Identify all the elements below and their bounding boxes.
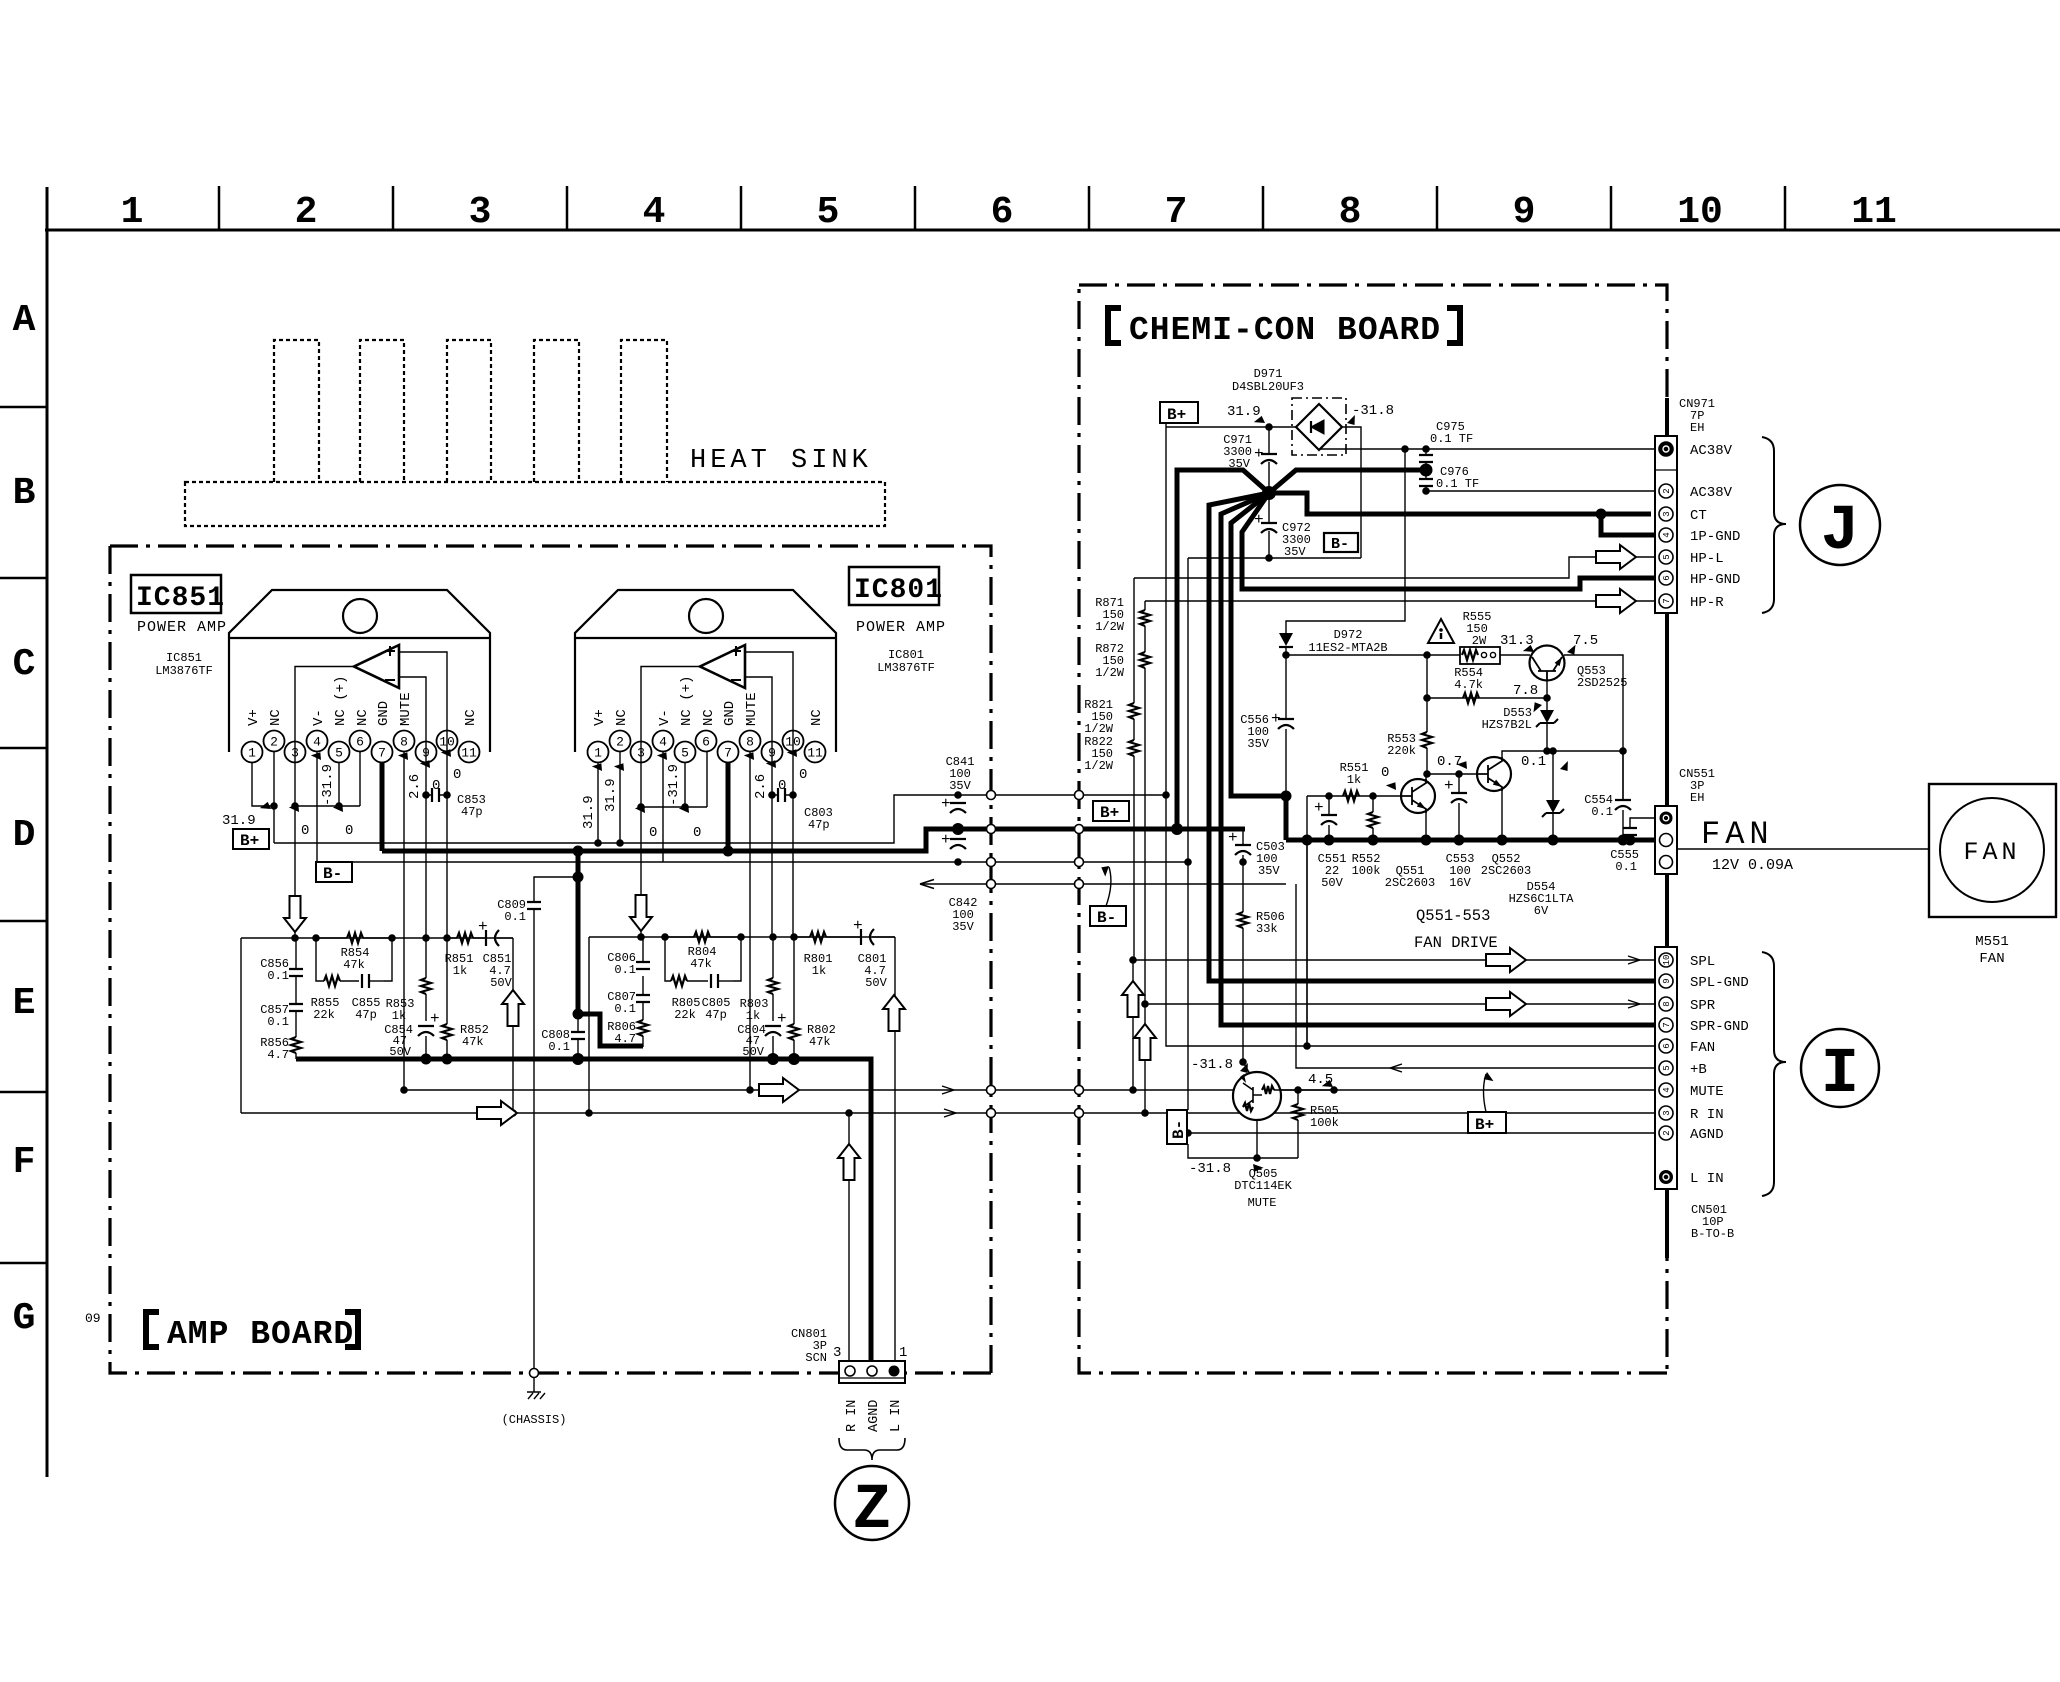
- transistor Q551: [1401, 779, 1435, 813]
- node 31.9 IC801 pin1: [592, 760, 606, 773]
- svg-text:1: 1: [899, 1345, 907, 1361]
- svg-text:MUTE: MUTE: [398, 692, 414, 726]
- IC801 pin name labels: [592, 676, 825, 726]
- IC851 reference label box: [131, 575, 221, 613]
- capacitor C842: [950, 839, 966, 849]
- svg-text:4.7: 4.7: [614, 1032, 636, 1046]
- svg-text:9: 9: [1513, 191, 1536, 234]
- svg-text:(CHASSIS): (CHASSIS): [502, 1413, 567, 1427]
- svg-text:FAN: FAN: [1963, 838, 2020, 867]
- CN501 pin 3: [1659, 1106, 1673, 1120]
- svg-text:50V: 50V: [490, 976, 512, 990]
- wire D972 to R555: [1286, 654, 1530, 656]
- svg-text:09: 09: [85, 1311, 101, 1326]
- B+ label box left: [233, 829, 269, 849]
- resistor R856: [291, 1037, 301, 1053]
- wire IC851 pin7 GND thick: [380, 762, 385, 851]
- resistor R805: [671, 976, 687, 986]
- wire star to C976 junction (thick): [1269, 470, 1426, 493]
- diode D553 zener: [1546, 698, 1548, 751]
- wire IC801 pins 1,2 to B+ rail: [598, 751, 620, 843]
- node 0 IC801 pin9: [766, 757, 780, 770]
- svg-text:B+: B+: [240, 832, 259, 850]
- svg-text:6V: 6V: [1534, 904, 1549, 918]
- wire star to HP-GND (thick): [1242, 493, 1659, 589]
- svg-text:GND: GND: [376, 701, 392, 726]
- svg-text:35V: 35V: [1258, 864, 1280, 878]
- connector CN971: [1655, 436, 1677, 613]
- wire feedback loop right: [665, 937, 741, 981]
- svg-text:SPL-GND: SPL-GND: [1690, 975, 1749, 991]
- svg-text:NC: NC: [355, 709, 371, 726]
- CN971 pin 1: [1659, 442, 1673, 456]
- CN551 pin 2: [1660, 834, 1673, 847]
- node 0 IC801 pin5: [679, 802, 693, 815]
- CN801 pin 1: [889, 1366, 900, 1377]
- wire MUTE line to CN501: [404, 1089, 1659, 1091]
- power amp IC IC801 package: [575, 590, 836, 752]
- svg-text:I: I: [1821, 1039, 1859, 1111]
- svg-text:5: 5: [1662, 554, 1672, 559]
- svg-text:50V: 50V: [865, 976, 887, 990]
- warning mark: [1428, 619, 1454, 643]
- wire IC801 inverting input (pin9): [745, 677, 772, 937]
- svg-text:4: 4: [1662, 1087, 1672, 1092]
- wire IC851 output / pins 3,5,6 junction: [295, 667, 360, 939]
- svg-text:B-: B-: [1097, 909, 1116, 927]
- svg-text:+B: +B: [1690, 1062, 1707, 1078]
- svg-text:2.6: 2.6: [753, 774, 769, 799]
- capacitor C975: [1425, 449, 1427, 455]
- svg-text:B-TO-B: B-TO-B: [1691, 1227, 1734, 1241]
- svg-text:FAN: FAN: [1690, 1040, 1715, 1056]
- svg-text:33k: 33k: [1256, 922, 1278, 936]
- svg-text:NC: NC: [809, 709, 825, 726]
- wire star to fan-drive ground (thick): [1231, 493, 1286, 840]
- svg-text:4: 4: [643, 191, 666, 234]
- IC851 pin name labels: [246, 676, 479, 726]
- svg-text:2SC2603: 2SC2603: [1385, 876, 1435, 890]
- capacitor C857: [289, 1004, 303, 1011]
- wire C801 output to L IN: [894, 937, 896, 1363]
- diode D554 zener: [1552, 751, 1554, 840]
- svg-text:MUTE: MUTE: [744, 692, 760, 726]
- svg-text:+: +: [430, 1010, 440, 1028]
- connector CN551: [1655, 806, 1677, 874]
- CN501 pin 5: [1659, 1061, 1673, 1075]
- svg-text:IC801: IC801: [888, 648, 924, 662]
- resistor R855: [324, 976, 340, 986]
- wire CN801 R IN leg: [848, 1113, 850, 1363]
- svg-text:47k: 47k: [343, 958, 365, 972]
- svg-text:1/2W: 1/2W: [1084, 759, 1114, 773]
- brace I: [1762, 952, 1786, 1196]
- B- label box right with leader: [1106, 867, 1111, 906]
- wire GND drop to cluster thick: [578, 851, 643, 1046]
- CHEMI-CON BOARD border (dash-dot): [1079, 285, 1667, 1373]
- wire left feedback network rail: [241, 938, 513, 1113]
- wire SPL line: [1133, 960, 1659, 1090]
- svg-text:10: 10: [1677, 191, 1723, 234]
- arrow up on CN801 R IN leg: [838, 1144, 860, 1180]
- svg-text:0: 0: [799, 767, 807, 783]
- capacitor C809 and chassis line: [534, 877, 578, 1373]
- svg-text:IC801: IC801: [854, 575, 943, 606]
- svg-text:CHEMI-CON BOARD: CHEMI-CON BOARD: [1129, 312, 1441, 349]
- svg-text:GND: GND: [722, 701, 738, 726]
- svg-text:50V: 50V: [1321, 876, 1343, 890]
- svg-text:IC851: IC851: [166, 651, 202, 665]
- svg-text:+: +: [1228, 829, 1238, 847]
- wire to fan motor: [1677, 848, 1929, 850]
- node -31.9 IC801 pin4: [657, 749, 671, 762]
- ruler row ticks: [0, 407, 47, 1263]
- svg-text:0: 0: [301, 823, 309, 839]
- svg-text:22k: 22k: [674, 1008, 696, 1022]
- wire IC801 pin4 to B- rail: [662, 751, 664, 862]
- wire IC801 pin8 MUTE down: [749, 751, 751, 1090]
- svg-text:G: G: [13, 1297, 36, 1340]
- IC801 pins 1-11: [588, 731, 826, 763]
- svg-text:+: +: [941, 831, 951, 849]
- svg-text:2W: 2W: [1472, 634, 1487, 648]
- resistor R551: [1343, 791, 1359, 801]
- node 0 IC801 pin3: [635, 802, 649, 815]
- svg-text:0.1 TF: 0.1 TF: [1430, 432, 1473, 446]
- arrow up on R input leg: [502, 990, 524, 1026]
- svg-text:11: 11: [461, 746, 477, 761]
- svg-text:9: 9: [768, 746, 776, 761]
- svg-text:MUTE: MUTE: [1690, 1084, 1724, 1100]
- IC801 reference label box: [849, 567, 939, 605]
- svg-text:31.9: 31.9: [222, 813, 256, 829]
- svg-text:AMP BOARD: AMP BOARD: [167, 1316, 354, 1353]
- resistor R852: [446, 938, 448, 1059]
- CN551 pin 3: [1660, 856, 1673, 869]
- resistor R822: [1129, 740, 1139, 756]
- svg-text:4: 4: [659, 735, 667, 750]
- wire IC851 pin1-pin2 to B+ rail: [252, 751, 274, 843]
- svg-text:2: 2: [616, 735, 624, 750]
- svg-text:-31.8: -31.8: [1352, 403, 1394, 419]
- node 31.9 IC801 pin2: [614, 760, 628, 773]
- svg-text:0.1: 0.1: [614, 1002, 636, 1016]
- star junction GND center tap: [1262, 486, 1276, 500]
- svg-text:4: 4: [313, 735, 321, 750]
- svg-text:+: +: [1271, 710, 1281, 728]
- capacitor C972: [1268, 493, 1270, 558]
- power amp IC IC851 package: [229, 590, 490, 752]
- svg-text:3: 3: [469, 191, 492, 234]
- CN971 pin 4: [1659, 528, 1673, 542]
- transistor Q505 (digital): [1243, 1062, 1250, 1074]
- AMP BOARD border (dash-dot): [110, 546, 991, 1373]
- capacitor C807: [636, 995, 650, 1002]
- svg-text:HP-GND: HP-GND: [1690, 572, 1740, 588]
- svg-text:EH: EH: [1690, 421, 1704, 435]
- svg-text:F: F: [13, 1141, 36, 1184]
- resistor R806: [638, 1020, 648, 1036]
- svg-text:1: 1: [248, 746, 256, 761]
- svg-text:HEAT SINK: HEAT SINK: [690, 446, 872, 476]
- resistor R553: [1426, 698, 1428, 774]
- svg-text:0.1: 0.1: [548, 1040, 570, 1054]
- svg-text:7: 7: [378, 746, 386, 761]
- svg-text:3: 3: [1662, 511, 1672, 516]
- svg-text:FAN DRIVE: FAN DRIVE: [1414, 934, 1498, 952]
- diode D972: [1279, 633, 1293, 646]
- resistor R821: [1133, 578, 1135, 740]
- svg-text:6: 6: [1662, 1043, 1672, 1048]
- CN501 pin 9: [1659, 974, 1673, 988]
- svg-text:B: B: [13, 472, 36, 515]
- svg-text:0.1: 0.1: [267, 969, 289, 983]
- wire B- rail AMP board: [317, 861, 1188, 863]
- wire star to GND bus (thick): [1177, 470, 1269, 829]
- svg-text:AGND: AGND: [1690, 1127, 1724, 1143]
- wire B- from bridge: [1188, 427, 1361, 862]
- op-amp triangle inside IC801: [700, 645, 745, 688]
- svg-text:Q551-553: Q551-553: [1416, 907, 1490, 925]
- svg-text:2: 2: [1662, 1130, 1672, 1135]
- B- label box: [1324, 533, 1358, 552]
- svg-text:+: +: [478, 918, 488, 936]
- svg-text:B-: B-: [1331, 536, 1349, 553]
- wire fan drive base line: [1307, 796, 1401, 1046]
- svg-text:100k: 100k: [1310, 1116, 1339, 1130]
- svg-text:1k: 1k: [746, 1009, 760, 1023]
- arrow up SPL: [1122, 981, 1144, 1017]
- svg-text:1/2W: 1/2W: [1095, 620, 1125, 634]
- svg-text:A: A: [13, 299, 36, 342]
- wire GND bus bottom thick: [296, 1059, 871, 1363]
- svg-text:LM3876TF: LM3876TF: [877, 661, 935, 675]
- svg-text:31.9: 31.9: [581, 795, 597, 829]
- arrow up SPR: [1134, 1024, 1156, 1060]
- svg-text:+: +: [941, 795, 951, 813]
- wire Q505 base to MUTE line: [1274, 1089, 1334, 1091]
- svg-text:1P-GND: 1P-GND: [1690, 529, 1740, 545]
- svg-text:HZS7B2L: HZS7B2L: [1482, 718, 1532, 732]
- svg-text:10: 10: [439, 735, 455, 750]
- svg-text:D972: D972: [1334, 628, 1363, 642]
- capacitor C853: [432, 788, 439, 802]
- CN501 pin 6: [1659, 1039, 1673, 1053]
- wire B+ rail AMP board: [274, 795, 1165, 843]
- svg-text:47p: 47p: [808, 818, 830, 832]
- connector destination I: [1801, 1029, 1879, 1107]
- svg-text:SCN: SCN: [805, 1351, 827, 1365]
- resistor R803: [772, 937, 774, 1021]
- svg-text:+: +: [1444, 777, 1454, 795]
- svg-text:SPR-GND: SPR-GND: [1690, 1019, 1749, 1035]
- svg-text:9: 9: [1662, 978, 1672, 983]
- svg-text:-31.8: -31.8: [1189, 1161, 1231, 1177]
- svg-text:22k: 22k: [313, 1008, 335, 1022]
- svg-text:2: 2: [1662, 488, 1672, 493]
- capacitor C841: [950, 803, 966, 813]
- node -31.9 pin4: [311, 749, 325, 762]
- svg-text:HP-L: HP-L: [1690, 551, 1724, 567]
- wire C851 output to R IN line: [512, 938, 514, 1113]
- resistor R554: [1463, 693, 1479, 703]
- resistor R872: [1140, 652, 1150, 668]
- CN501 pin 8: [1659, 997, 1673, 1011]
- CN501 pin 7: [1659, 1018, 1673, 1032]
- wire IC851 inverting input (pin9): [399, 677, 426, 938]
- capacitor C805: [711, 974, 718, 988]
- svg-text:5: 5: [335, 746, 343, 761]
- wire +B line: [1296, 884, 1659, 1068]
- B- label box rotated: [1188, 862, 1298, 1158]
- svg-text:5: 5: [1662, 1065, 1672, 1070]
- svg-text:9: 9: [422, 746, 430, 761]
- svg-text:NC: NC: [463, 709, 479, 726]
- node 0 IC801 pin10: [787, 746, 801, 759]
- svg-text:B+: B+: [1475, 1116, 1494, 1134]
- svg-text:8: 8: [746, 735, 754, 750]
- svg-text:0: 0: [345, 823, 353, 839]
- capacitor C971: [1268, 427, 1270, 493]
- svg-text:0.1: 0.1: [267, 1015, 289, 1029]
- capacitor C976: [1425, 470, 1427, 479]
- wire IC801 output / pins 3,5,6 junction: [641, 667, 707, 938]
- node 0 pin9: [420, 757, 434, 770]
- svg-text:50V: 50V: [742, 1045, 764, 1059]
- svg-text:31.9: 31.9: [1227, 404, 1261, 420]
- wire HP-R line: [1145, 600, 1659, 602]
- wire star to CT pin (thick): [1269, 493, 1659, 535]
- svg-text:35V: 35V: [1247, 737, 1269, 751]
- CN551 pin 1: [1660, 812, 1673, 825]
- wire GND bus thick (IC pin7 rail): [382, 829, 1245, 851]
- svg-text:-31.8: -31.8: [1191, 1057, 1233, 1073]
- B+ label box top: [1160, 402, 1198, 423]
- svg-text:IC851: IC851: [136, 583, 225, 614]
- svg-text:1k: 1k: [392, 1009, 406, 1023]
- op-amp triangle inside IC851: [354, 645, 399, 688]
- svg-text:POWER AMP: POWER AMP: [137, 619, 227, 636]
- CN501 pin 4: [1659, 1083, 1673, 1097]
- wire AGND line: [1188, 1132, 1659, 1134]
- svg-text:-31.9: -31.9: [320, 764, 336, 806]
- board boundary connection circles: [987, 791, 996, 800]
- wire IC801 non-inverting input (pin10): [745, 652, 793, 937]
- CN501 pin 1: [1659, 1170, 1673, 1184]
- fan motor M551 box: [1929, 784, 2056, 917]
- wire +B feed line with left arrow: [920, 883, 1286, 885]
- svg-text:6: 6: [991, 191, 1014, 234]
- arrow feed into left network: [284, 896, 306, 932]
- svg-text:V-: V-: [311, 709, 327, 726]
- svg-text:3: 3: [833, 1345, 841, 1361]
- arrow up on L input leg: [883, 995, 905, 1031]
- svg-text:V+: V+: [592, 709, 608, 726]
- svg-text:31.3: 31.3: [1500, 633, 1534, 649]
- CN971 pin 5: [1659, 550, 1673, 564]
- IC851 pins 1-11: [242, 731, 480, 763]
- wire Q551 collector to Q552 base: [1426, 774, 1477, 840]
- CN801 pin 3: [845, 1366, 855, 1376]
- resistor R853: [425, 938, 427, 1021]
- transistor Q553: [1530, 646, 1565, 681]
- svg-text:MUTE: MUTE: [1248, 1196, 1277, 1210]
- svg-text:2: 2: [295, 191, 318, 234]
- svg-text:Z: Z: [853, 1475, 891, 1547]
- svg-text:7: 7: [724, 746, 732, 761]
- capacitor C856: [295, 938, 297, 1004]
- svg-text:6: 6: [1662, 575, 1672, 580]
- svg-text:M551: M551: [1975, 934, 2009, 950]
- svg-text:47p: 47p: [705, 1008, 727, 1022]
- wire right feedback network rail: [589, 937, 895, 1113]
- heat sink outline (dashed): [185, 340, 885, 526]
- svg-text:5: 5: [681, 746, 689, 761]
- ground symbol (CHASSIS): [527, 1378, 545, 1399]
- svg-text:47k: 47k: [462, 1035, 484, 1049]
- connector CN501: [1655, 947, 1677, 1189]
- svg-text:0.1: 0.1: [504, 910, 526, 924]
- svg-text:SPL: SPL: [1690, 954, 1715, 970]
- svg-text:0.1: 0.1: [614, 963, 636, 977]
- svg-text:7: 7: [1662, 1022, 1672, 1027]
- svg-text:D971: D971: [1254, 367, 1283, 381]
- svg-text:0.1: 0.1: [1521, 754, 1546, 770]
- board edge solid segments at connectors: [1665, 398, 1669, 1258]
- wire R IN line to CN501: [241, 1112, 1659, 1114]
- svg-text:5: 5: [817, 191, 840, 234]
- svg-text:6: 6: [356, 735, 364, 750]
- connector CN801: [839, 1361, 905, 1383]
- svg-text:2: 2: [270, 735, 278, 750]
- wire Q553 collector: [1564, 655, 1623, 800]
- svg-text:4.7: 4.7: [267, 1048, 289, 1062]
- resistor R804: [665, 936, 741, 938]
- capacitor C554: [1622, 751, 1624, 840]
- svg-text:+: +: [853, 917, 863, 935]
- svg-text:3: 3: [1662, 1110, 1672, 1115]
- svg-text:V-: V-: [657, 709, 673, 726]
- node 0 pin10: [441, 746, 455, 759]
- svg-text:B-: B-: [1170, 1120, 1188, 1139]
- svg-text:0.7: 0.7: [1437, 754, 1462, 770]
- svg-text:3: 3: [637, 746, 645, 761]
- resistor R802: [793, 937, 795, 1059]
- svg-text:7: 7: [1662, 598, 1672, 603]
- svg-text:L IN: L IN: [889, 1400, 904, 1432]
- capacitor C854: [418, 1026, 434, 1036]
- svg-text:AC38V: AC38V: [1690, 485, 1733, 501]
- svg-text:1: 1: [594, 746, 602, 761]
- CN971 pin 6: [1659, 571, 1673, 585]
- svg-text:B+: B+: [1100, 804, 1119, 822]
- bridge rectifier D971: [1296, 404, 1342, 450]
- capacitor C555: [1630, 818, 1659, 840]
- B+ label box right: [1093, 801, 1129, 821]
- svg-text:V+: V+: [246, 709, 262, 726]
- svg-text:8: 8: [1339, 191, 1362, 234]
- resistor R505: [1297, 1090, 1299, 1158]
- node -31.8 Q505 top: [1239, 1058, 1247, 1066]
- svg-text:4.7k: 4.7k: [1454, 678, 1483, 692]
- brace to Z: [839, 1438, 905, 1460]
- connector destination Z: [835, 1466, 909, 1540]
- svg-text:POWER AMP: POWER AMP: [856, 619, 946, 636]
- svg-text:1/2W: 1/2W: [1095, 666, 1125, 680]
- CN971 pin 7: [1659, 594, 1673, 608]
- capacitor C804: [765, 1026, 781, 1036]
- svg-text:0: 0: [1381, 765, 1389, 781]
